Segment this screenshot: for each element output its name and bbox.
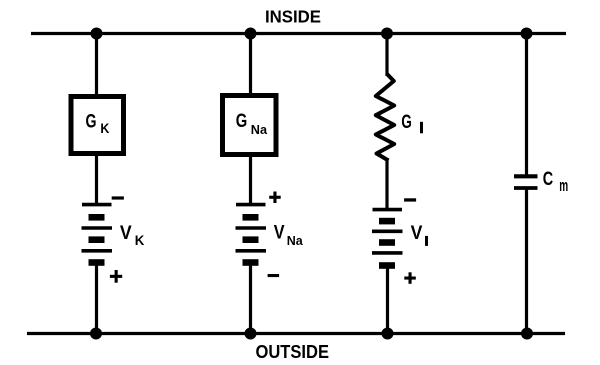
polarity minus sign V_K top <box>112 196 124 199</box>
svg-text:V: V <box>411 222 423 244</box>
polarity minus sign V_l top <box>404 198 416 201</box>
polarity plus sign V_Na top <box>269 192 281 204</box>
svg-text:K: K <box>135 233 145 248</box>
label G_K <box>86 110 110 136</box>
wire branch 4 bottom <box>525 188 528 334</box>
resistor G_l zigzag <box>376 74 394 161</box>
node junction dot bottom branch 1 <box>90 328 102 340</box>
polarity plus sign V_l bottom <box>404 272 416 284</box>
wire branch 1 top <box>95 34 98 97</box>
capacitor C_m <box>514 176 538 188</box>
svg-text:Na: Na <box>251 123 268 137</box>
svg-text:K: K <box>100 121 109 136</box>
label V_l <box>411 222 428 246</box>
polarity minus sign V_Na bottom <box>268 274 280 277</box>
label V_Na <box>274 221 304 248</box>
node junction dot top branch 4 <box>521 28 533 40</box>
wire branch 2 between box and battery <box>249 157 252 204</box>
battery V_l <box>372 210 403 266</box>
wire top rail (INSIDE net) <box>31 32 566 35</box>
node junction dot top branch 1 <box>91 28 103 40</box>
wire branch 1 between box and battery <box>95 156 98 204</box>
wire branch 1 bottom <box>95 263 98 334</box>
wire branch 3 between resistor and battery <box>385 159 388 209</box>
battery V_Na <box>236 205 267 263</box>
label G_Na <box>236 110 268 137</box>
node junction dot bottom branch 4 <box>521 328 533 340</box>
svg-text:V: V <box>120 222 132 244</box>
label G_l <box>401 111 423 133</box>
svg-text:INSIDE: INSIDE <box>265 6 321 26</box>
svg-text:C: C <box>543 168 553 190</box>
battery V_K <box>82 205 113 263</box>
svg-text:m: m <box>559 177 568 195</box>
wire branch 2 top <box>249 34 252 96</box>
wire bottom rail (OUTSIDE net) <box>27 332 565 335</box>
svg-text:V: V <box>274 221 285 243</box>
wire branch 3 top <box>385 34 388 77</box>
node junction dot bottom branch 3 <box>382 328 394 340</box>
conductance G_K box <box>71 97 124 154</box>
node junction dot bottom branch 2 <box>245 328 257 340</box>
svg-text:G: G <box>236 110 248 132</box>
node junction dot top branch 3 <box>381 28 393 40</box>
svg-text:OUTSIDE: OUTSIDE <box>256 342 330 362</box>
label C_m <box>543 168 568 195</box>
svg-text:G: G <box>401 111 411 133</box>
wire branch 3 bottom <box>386 266 389 334</box>
label V_K <box>120 222 145 248</box>
polarity plus sign V_K bottom <box>110 270 122 283</box>
svg-text:Na: Na <box>287 234 304 248</box>
node junction dot top branch 2 <box>245 28 257 40</box>
wire branch 2 bottom <box>249 263 252 334</box>
conductance G_Na box <box>223 96 277 155</box>
svg-text:G: G <box>86 110 97 132</box>
wire branch 4 top <box>525 34 528 177</box>
